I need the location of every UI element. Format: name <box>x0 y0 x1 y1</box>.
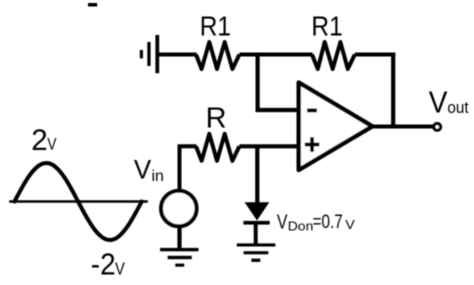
wire junction down to inverting input <box>256 55 260 111</box>
wire diode anode <box>255 146 259 203</box>
terminal Vout circle <box>434 124 441 131</box>
resistor R1 (feedback) <box>312 42 355 69</box>
wire Vin source up to R <box>180 146 197 189</box>
svg-text:out: out <box>447 100 469 118</box>
wire ground to R1 <box>158 53 197 57</box>
wire diode cathode to ground <box>254 224 258 245</box>
wire R1 to top-right corner <box>355 53 396 57</box>
minus artifact top-left <box>88 3 97 7</box>
wire to inverting input <box>256 108 300 112</box>
wire R junction to non-inverting input <box>239 144 299 148</box>
plus input mark <box>305 137 320 152</box>
ground (under diode) <box>237 243 276 262</box>
svg-text:V: V <box>134 154 152 184</box>
minus input mark <box>307 108 317 112</box>
svg-text:Don: Don <box>288 219 314 233</box>
svg-text:-2: -2 <box>91 247 116 282</box>
ground (under Vin) <box>160 248 198 267</box>
resistor R <box>196 134 239 161</box>
wire feedback vertical right <box>391 53 395 127</box>
source Vin circle <box>161 191 197 227</box>
svg-text:=0.7: =0.7 <box>313 210 343 232</box>
svg-text:V: V <box>115 259 125 279</box>
svg-text:V: V <box>47 135 57 154</box>
sine wave <box>15 163 142 240</box>
sine axis <box>9 200 148 203</box>
svg-text:R1: R1 <box>311 10 342 42</box>
svg-text:V: V <box>345 218 355 232</box>
svg-text:R: R <box>206 102 227 134</box>
op-amp U1 <box>299 83 373 171</box>
diode cathode bar <box>243 221 269 225</box>
wire op-amp output <box>373 125 434 129</box>
wire R1 to R1 (junction node) <box>239 53 312 57</box>
wire Vin source to ground <box>177 226 181 249</box>
svg-text:2: 2 <box>31 124 47 157</box>
svg-text:V: V <box>429 86 448 119</box>
ground (left, rotated, at R1 input) <box>140 35 159 73</box>
resistor R1 (input) <box>196 42 239 69</box>
svg-text:R1: R1 <box>200 10 231 42</box>
diode D1 triangle <box>245 202 270 220</box>
svg-text:in: in <box>152 168 164 185</box>
svg-text:V: V <box>277 209 288 233</box>
